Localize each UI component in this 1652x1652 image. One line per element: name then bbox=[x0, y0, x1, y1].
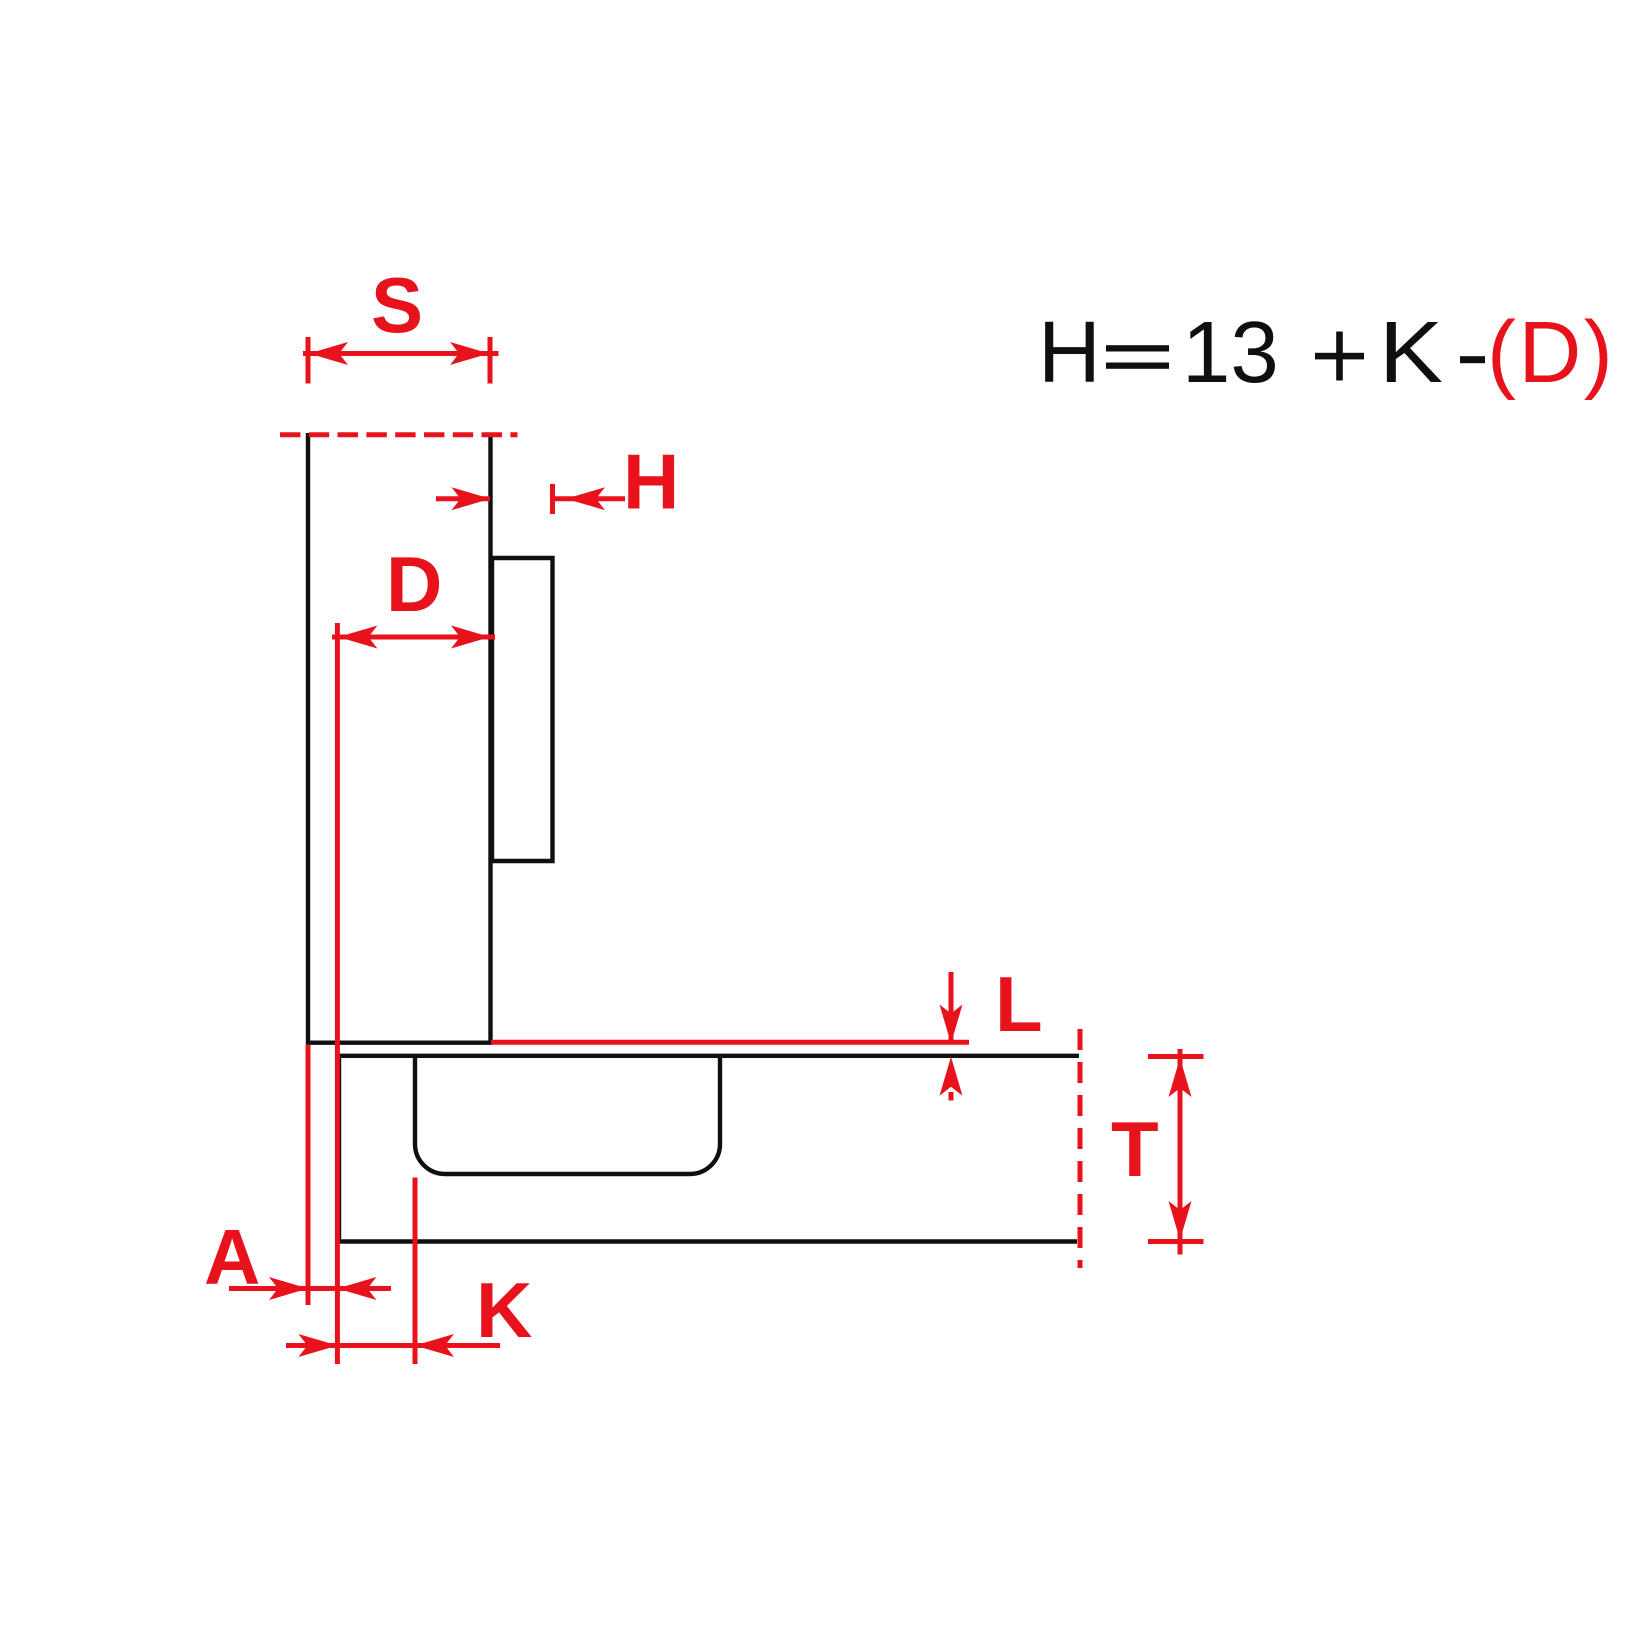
svg-text:K: K bbox=[1379, 304, 1443, 401]
svg-text:L: L bbox=[995, 960, 1043, 1048]
svg-text:H: H bbox=[623, 438, 679, 526]
svg-text:(D): (D) bbox=[1487, 304, 1615, 401]
svg-text:H: H bbox=[1038, 304, 1101, 401]
svg-text:A: A bbox=[204, 1213, 260, 1301]
svg-text:13: 13 bbox=[1182, 304, 1279, 401]
svg-text:S: S bbox=[371, 261, 423, 349]
svg-text:D: D bbox=[386, 540, 442, 628]
svg-text:K: K bbox=[476, 1266, 532, 1354]
svg-text:T: T bbox=[1111, 1105, 1159, 1193]
